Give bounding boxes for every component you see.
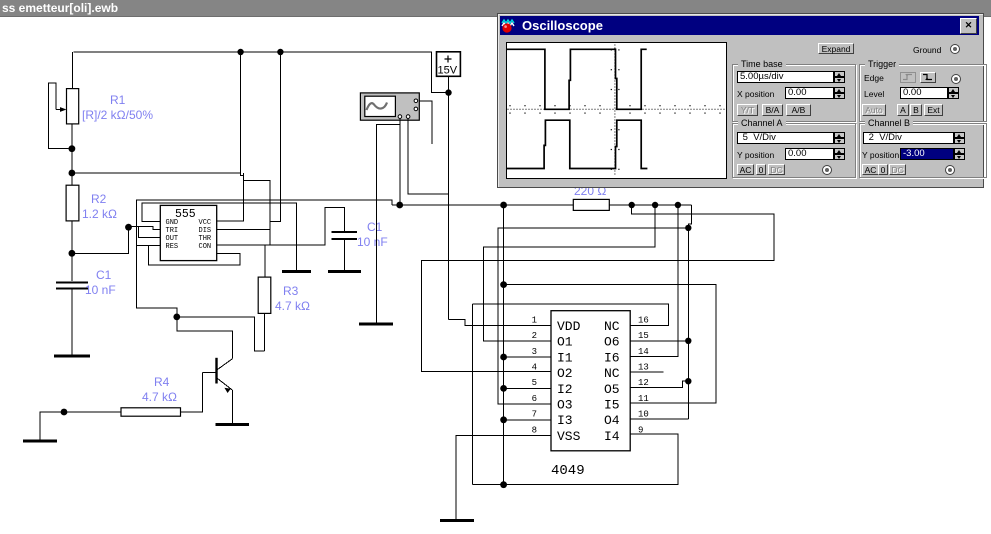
- wire rail to 4049 pin4 loop: [421, 205, 774, 372]
- wire right drop to pins 15 12 10: [687, 228, 689, 419]
- wire THR row: [217, 208, 345, 245]
- node H1 dot: [685, 225, 691, 231]
- ground bar VSS: [440, 519, 474, 522]
- wire R2-node row to VCC drop: [72, 173, 244, 176]
- node R2 top: [69, 170, 76, 177]
- svg-text:I1: I1: [557, 350, 573, 365]
- wire DIS branch: [244, 180, 271, 277]
- svg-text:R1: R1: [110, 93, 126, 107]
- app title bar: [0, 0, 991, 17]
- svg-text:10 nF: 10 nF: [85, 283, 116, 297]
- svg-text:12: 12: [638, 378, 649, 388]
- wire TRI stub: [129, 226, 161, 229]
- svg-text:7: 7: [532, 410, 537, 420]
- ground bar C1 left: [54, 355, 90, 358]
- battery V1 15V: [437, 52, 461, 93]
- wire 555 GND loop over top: [142, 203, 297, 271]
- svg-text:VSS: VSS: [557, 429, 581, 444]
- svg-text:3: 3: [532, 347, 537, 357]
- svg-text:1: 1: [532, 315, 537, 325]
- wire R4 to ground: [40, 412, 64, 440]
- node pin3 dot: [500, 354, 507, 361]
- svg-text:I5: I5: [604, 398, 620, 413]
- svg-text:R2: R2: [91, 192, 107, 206]
- Channel A group: [732, 123, 856, 178]
- wire battery to 4049 pin1: [449, 320, 552, 326]
- wire top rail drop 2 (GND net): [270, 52, 280, 222]
- wire pin12 hook: [630, 381, 688, 387]
- pin numbers left: [532, 315, 537, 435]
- svg-text:14: 14: [638, 347, 649, 357]
- svg-text:TRI: TRI: [166, 227, 179, 235]
- node TRI dot: [125, 224, 132, 231]
- svg-text:O5: O5: [604, 382, 620, 397]
- wire RES stub: [137, 244, 161, 246]
- transistor Q1: [181, 358, 233, 423]
- node pin15 dot: [685, 338, 691, 344]
- wire pin13 stub NC: [630, 371, 663, 373]
- wire H5 to 4049 pin16: [473, 304, 669, 326]
- ground bar C1 right: [328, 270, 361, 273]
- IC U1 555: [160, 205, 216, 260]
- ground bar R4: [23, 440, 57, 443]
- wire DIS stub: [217, 228, 271, 230]
- node rail dot at 678: [675, 202, 681, 208]
- svg-text:NC: NC: [604, 366, 620, 381]
- wire probe net vertical: [503, 205, 505, 485]
- wire pin10 stub: [630, 418, 688, 420]
- svg-text:9: 9: [638, 425, 643, 435]
- wire H1 to 4049 pin6: [498, 228, 688, 404]
- wire rail to 4049 pin2: [484, 205, 655, 341]
- svg-text:555: 555: [175, 208, 196, 221]
- wire pin8 VSS to ground: [456, 435, 551, 519]
- svg-text:O6: O6: [604, 335, 620, 350]
- svg-text:DIS: DIS: [199, 227, 212, 235]
- svg-text:I2: I2: [557, 382, 573, 397]
- node rail dot at 631: [629, 202, 635, 208]
- svg-text:O3: O3: [557, 398, 573, 413]
- oscilloscope icon XSC1: [360, 93, 419, 120]
- node base junction: [173, 314, 180, 321]
- svg-text:4049: 4049: [551, 463, 585, 479]
- resistor R5 220 ohm: [573, 199, 609, 210]
- wire pin7 stub: [504, 419, 551, 421]
- svg-text:R4: R4: [154, 375, 170, 389]
- svg-text:15V: 15V: [438, 65, 458, 77]
- svg-text:4.7 kΩ: 4.7 kΩ: [275, 299, 310, 313]
- svg-text:C1: C1: [96, 268, 112, 282]
- svg-text:O1: O1: [557, 335, 573, 350]
- svg-text:[R]/2 kΩ/50%: [R]/2 kΩ/50%: [82, 108, 153, 122]
- node pin7 dot: [500, 416, 507, 423]
- svg-text:O4: O4: [604, 413, 620, 428]
- wire base node to R3 bottom: [177, 317, 265, 351]
- wire RES-CON underpass: [149, 245, 241, 265]
- svg-text:VDD: VDD: [557, 319, 581, 334]
- svg-text:5: 5: [532, 378, 537, 388]
- wire pin3 stub: [504, 356, 551, 358]
- svg-text:CON: CON: [199, 243, 212, 251]
- node pin5 dot: [500, 385, 507, 392]
- IC U2 4049: [551, 311, 630, 451]
- wire OUT stub: [138, 226, 160, 237]
- wire H4 to 4049 pin11: [504, 285, 716, 403]
- svg-text:NC: NC: [604, 319, 620, 334]
- resistor R2: [66, 173, 79, 253]
- resistor R3: [258, 277, 271, 351]
- svg-text:VCC: VCC: [199, 219, 212, 227]
- pin numbers right: [638, 315, 649, 435]
- Trigger group: [859, 64, 987, 122]
- potentiometer R1: [48, 52, 78, 149]
- ground bar THR net: [282, 270, 311, 273]
- node pin12 dot: [685, 378, 691, 384]
- svg-text:I3: I3: [557, 413, 573, 428]
- trace channel B: [507, 120, 647, 168]
- oscilloscope instrument window: [497, 13, 984, 188]
- wire bottom loop to pin9: [473, 434, 678, 485]
- svg-text:O2: O2: [557, 366, 573, 381]
- node top rail dot 2: [277, 49, 283, 55]
- node H4 dot: [500, 281, 507, 288]
- wire scope B terminal: [408, 118, 448, 194]
- node battery junction: [445, 89, 451, 95]
- node top rail dot 1: [237, 49, 243, 55]
- svg-text:RES: RES: [166, 243, 179, 251]
- wire battery down: [448, 93, 450, 320]
- scope screen: [506, 42, 727, 179]
- svg-text:10 nF: 10 nF: [357, 235, 388, 249]
- wire scope G terminal: [419, 101, 432, 144]
- output rail wire: [400, 204, 692, 206]
- top supply rail wire: [73, 52, 448, 93]
- wire pin5 stub: [504, 387, 551, 389]
- wire base node to collector: [177, 317, 233, 359]
- svg-text:8: 8: [532, 425, 537, 435]
- wire VCC vertical: [217, 173, 244, 221]
- resistor R4: [64, 408, 181, 416]
- svg-text:11: 11: [638, 394, 649, 404]
- wire R1 to R2 node: [71, 149, 73, 173]
- svg-text:GND: GND: [166, 219, 179, 227]
- svg-text:THR: THR: [199, 235, 212, 243]
- node R2 bottom: [69, 250, 76, 257]
- capacitor C1 right 10nF: [332, 232, 358, 270]
- svg-text:I6: I6: [604, 350, 620, 365]
- wire pin15 stub: [630, 340, 688, 342]
- svg-text:6: 6: [532, 394, 537, 404]
- Channel B group: [859, 123, 987, 178]
- svg-text:C1: C1: [367, 220, 383, 234]
- svg-text:I4: I4: [604, 429, 620, 444]
- svg-text:4.7 kΩ: 4.7 kΩ: [142, 390, 177, 404]
- trace channel A: [507, 49, 647, 109]
- svg-text:15: 15: [638, 331, 649, 341]
- wire rail end to H1 dot: [688, 205, 691, 228]
- ground bar transistor emitter: [216, 423, 250, 426]
- node rail dot at 503: [500, 202, 507, 209]
- node rail dot at 655: [652, 202, 658, 208]
- wire top rail drop 1: [240, 52, 242, 173]
- node R1 bottom: [69, 145, 76, 152]
- svg-text:OUT: OUT: [166, 235, 179, 243]
- ground bar scope A: [359, 323, 393, 326]
- wire H_a long horizontal to scope A node: [137, 200, 393, 317]
- svg-text:R3: R3: [283, 284, 299, 298]
- svg-text:10: 10: [638, 410, 649, 420]
- wire scope A terminal down to rail: [399, 118, 401, 205]
- svg-text:16: 16: [638, 315, 649, 325]
- wire V472 down to bottom loop: [472, 304, 474, 485]
- svg-text:2: 2: [532, 331, 537, 341]
- Time base group: [732, 64, 856, 122]
- svg-text:4: 4: [532, 363, 537, 373]
- wire TRI node down to R2 bottom: [72, 227, 129, 253]
- node R4 left: [61, 409, 68, 416]
- wire scope A side branch to ground: [376, 124, 400, 323]
- node bottom dot: [500, 481, 507, 488]
- svg-text:1.2 kΩ: 1.2 kΩ: [82, 207, 117, 221]
- capacitor C1 left 10nF: [56, 253, 88, 354]
- svg-text:13: 13: [638, 363, 649, 373]
- wire rail to 4049 pin14: [630, 205, 678, 357]
- node scope A rail dot: [396, 202, 403, 209]
